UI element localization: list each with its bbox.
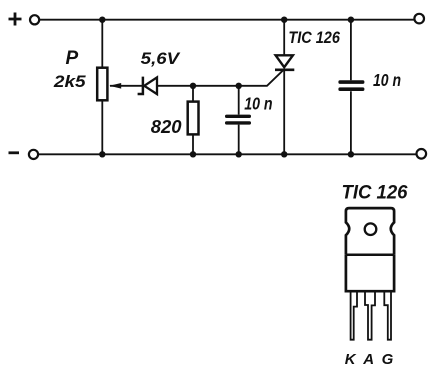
svg-text:P: P bbox=[66, 48, 79, 69]
svg-text:820: 820 bbox=[151, 116, 183, 137]
svg-text:5,6V: 5,6V bbox=[141, 49, 181, 68]
svg-text:TIC 126: TIC 126 bbox=[342, 182, 408, 204]
svg-text:2k5: 2k5 bbox=[53, 72, 86, 91]
svg-text:10 n: 10 n bbox=[244, 94, 272, 114]
svg-text:K A G: K A G bbox=[345, 351, 394, 368]
svg-text:10 n: 10 n bbox=[373, 70, 401, 90]
svg-text:TIC 126: TIC 126 bbox=[288, 28, 340, 47]
